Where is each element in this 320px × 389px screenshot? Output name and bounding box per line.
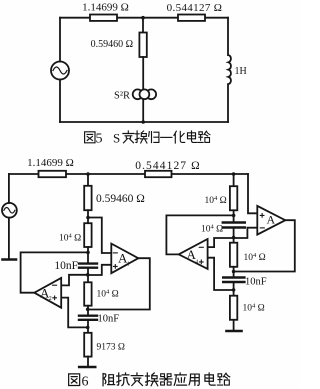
wire node2L segment	[87, 247, 89, 263]
svg-text:10nF: 10nF	[54, 260, 78, 272]
wire middle branch mid fig5	[142, 57, 144, 90]
svg-text:0.544127 Ω: 0.544127 Ω	[167, 2, 223, 14]
capacitor 10nF (L, C1)	[54, 260, 97, 272]
wire node2R segment	[233, 228, 235, 243]
svg-text:0.59460 Ω: 0.59460 Ω	[96, 193, 145, 205]
svg-text:2: 2	[49, 296, 52, 302]
wire node4R segment	[233, 282, 235, 296]
resistor 10^4 ohm (R1)	[205, 186, 238, 210]
wire bottom rail fig5	[60, 121, 228, 123]
wire left branch lower fig5	[59, 80, 61, 123]
resistor 10^4 ohm (L2)	[59, 223, 92, 247]
wire node1L segment	[87, 210, 89, 223]
wire A2 plus input to node5L	[61, 298, 87, 328]
svg-text:104 Ω: 104 Ω	[201, 224, 223, 235]
wire node3R to A3 output (feedback)	[234, 220, 295, 271]
wire node5L segment	[87, 320, 89, 333]
inductor 1H	[228, 55, 246, 84]
capacitor labeled 10^4 ohm (R2)	[201, 223, 245, 235]
capacitor 10nF (L, C2)	[79, 314, 119, 325]
wire right branch bottom fig5	[227, 84, 229, 122]
svg-text:10nF: 10nF	[98, 314, 120, 325]
wire node4R to A4 plus input	[208, 258, 234, 290]
AC source V2	[2, 203, 17, 218]
wire middle branch fig5	[142, 18, 144, 33]
wire node3L segment	[87, 268, 89, 283]
wire top rail right drop to A3 + input	[248, 174, 257, 213]
op-amp A4	[179, 239, 208, 269]
svg-text:104 Ω: 104 Ω	[205, 195, 227, 206]
resistor 1.14699 ohm (fig5)	[82, 2, 129, 21]
wire middle branch bottom fig5	[142, 99, 144, 122]
node 1L junction	[86, 216, 90, 220]
svg-text:A: A	[267, 213, 276, 227]
wire node3L to A1 plus input	[88, 265, 112, 275]
svg-text:0.544127 Ω: 0.544127 Ω	[135, 160, 201, 172]
svg-text:1.14699 Ω: 1.14699 Ω	[27, 157, 74, 169]
svg-text:104 Ω: 104 Ω	[97, 289, 119, 300]
node 1R junction	[232, 214, 236, 218]
caption figure5	[85, 131, 210, 147]
wire left branch fig5	[59, 18, 61, 62]
svg-text:104 Ω: 104 Ω	[59, 233, 81, 244]
svg-text:0.59460 Ω: 0.59460 Ω	[91, 39, 133, 50]
svg-text:104 Ω: 104 Ω	[244, 252, 266, 263]
node 2L junction	[86, 251, 90, 255]
resistor 10^4 ohm (R3)	[230, 243, 266, 267]
wire node1L to A1 minus input	[88, 218, 111, 254]
node junction top fig5	[141, 16, 145, 20]
wire R5 to ground	[233, 320, 235, 330]
svg-text:5: 5	[96, 132, 103, 147]
wire top of left chain	[87, 174, 89, 186]
ground left chain	[79, 366, 95, 369]
caption figure6	[69, 373, 230, 389]
wire node4L segment	[87, 306, 89, 316]
wire right branch fig5	[227, 18, 229, 55]
resistor 9173 ohm	[84, 333, 125, 357]
node 4R junction	[232, 288, 236, 292]
wire top rail fig6	[9, 173, 248, 175]
FDNR element S2R	[114, 89, 156, 101]
wire node1R segment	[233, 210, 235, 222]
wire top rail fig5	[60, 17, 228, 19]
svg-text:S²R: S²R	[114, 91, 130, 102]
wire 9173 to ground	[87, 357, 89, 366]
wire node2R to A3 minus input	[234, 228, 258, 238]
svg-text:4: 4	[196, 259, 199, 265]
node T1 junction top-left chain	[86, 172, 90, 176]
wire node2L to A2 output (feedback)	[21, 252, 88, 292]
resistor 10^4 ohm (R5)	[230, 296, 265, 320]
resistor 0.544127 ohm (fig6)	[135, 160, 201, 177]
svg-text:6: 6	[82, 375, 89, 389]
svg-text:1: 1	[127, 262, 130, 268]
op-amp A1	[111, 244, 138, 274]
ground under source	[3, 258, 17, 261]
capacitor 10nF (R4)	[223, 277, 267, 288]
svg-text:S: S	[113, 131, 120, 146]
svg-text:1H: 1H	[235, 66, 247, 77]
node 4L junction	[86, 308, 90, 312]
resistor 0.544127 ohm (fig5)	[167, 2, 223, 21]
svg-text:104 Ω: 104 Ω	[243, 303, 265, 314]
node junction bottom fig5	[141, 120, 145, 124]
wire node1R to A4 output (feedback)	[166, 215, 233, 254]
wire node4L to A1 output (feedback)	[88, 258, 150, 309]
svg-text:10nF: 10nF	[245, 277, 267, 288]
wire node3L to A2 minus input	[61, 275, 87, 286]
svg-text:9173 Ω: 9173 Ω	[97, 343, 125, 353]
resistor 0.59460 ohm (fig5)	[91, 33, 147, 58]
wire source to ground fig6	[8, 218, 10, 259]
wire node2R to A4 minus input	[208, 238, 234, 247]
node 3L junction	[86, 273, 90, 277]
resistor 0.59460 ohm (fig6)	[84, 186, 145, 210]
wire left branch fig6	[8, 174, 10, 203]
wire node3R segment	[233, 267, 235, 278]
wire top of right chain	[233, 174, 235, 186]
resistor 10^4 ohm (L4)	[84, 282, 118, 305]
resistor 1.14699 ohm (fig6)	[27, 157, 74, 177]
op-amp A2	[34, 278, 61, 308]
node T2 junction top-right chain	[232, 172, 236, 176]
op-amp A3	[257, 206, 285, 235]
ground right chain	[227, 330, 242, 333]
svg-text:1.14699 Ω: 1.14699 Ω	[82, 2, 129, 14]
node 2R junction	[232, 236, 236, 240]
AC source V1	[51, 62, 69, 80]
node 3R junction	[232, 270, 236, 274]
node 5L junction	[86, 326, 90, 330]
